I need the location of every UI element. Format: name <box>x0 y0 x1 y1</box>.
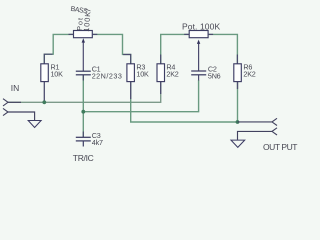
label C1 value <box>92 65 123 81</box>
node junction C1-C3 line <box>81 110 85 114</box>
wire bass pot left terminal to R1 <box>44 34 73 63</box>
ground left <box>28 121 41 128</box>
wire R6 pin stub <box>237 82 239 89</box>
connector OUT pin 1 <box>272 118 277 125</box>
resistor R4 <box>157 64 165 82</box>
wire C2 pin stub <box>198 75 200 81</box>
resistor R6 <box>234 64 242 82</box>
svg-text:OUT PUT: OUT PUT <box>263 142 297 152</box>
label R6 value <box>243 63 255 79</box>
wire IN ground return <box>8 112 35 120</box>
wire R1 bottom lead <box>43 82 45 103</box>
wire bass pot right pin stub <box>92 33 97 35</box>
svg-text:10K: 10K <box>51 70 64 79</box>
wire bass pot right terminal to R3 <box>92 34 130 63</box>
label R3 value <box>136 63 149 79</box>
svg-text:22N/233: 22N/233 <box>92 72 123 81</box>
wire main input line <box>8 82 161 103</box>
wire bass pot left pin stub <box>69 33 74 35</box>
wire R6 top pin stub <box>236 55 238 64</box>
svg-text:4k7: 4k7 <box>92 138 103 147</box>
svg-text:2K2: 2K2 <box>243 70 255 79</box>
potentiometer BASS wiper arrow <box>82 38 85 42</box>
wire C1 down to C3 <box>82 75 84 138</box>
svg-text:Pot. 100K: Pot. 100K <box>182 22 220 32</box>
capacitor C2 <box>191 71 206 75</box>
potentiometer BASS body <box>74 31 93 38</box>
resistor R3 <box>127 64 134 82</box>
node junction R1-input <box>42 100 46 104</box>
capacitor C3 <box>76 137 91 146</box>
potentiometer TREBLE body <box>189 31 208 38</box>
wire OUT ground return <box>238 131 273 140</box>
svg-text:IN: IN <box>11 83 19 93</box>
label R4 value <box>166 63 178 79</box>
wire R4 top pin stub <box>160 55 162 64</box>
wire R3 top pin stub <box>123 55 131 64</box>
wire R4 pin stub <box>160 82 162 94</box>
potentiometer TREBLE wiper arrow <box>197 40 200 44</box>
svg-text:100K/: 100K/ <box>82 8 93 32</box>
wire treble pot left terminal to R4 <box>161 34 190 63</box>
svg-text:TR/IC: TR/IC <box>73 153 94 163</box>
label C2 value <box>208 65 221 81</box>
wire C1 pin stub <box>82 75 84 81</box>
connector IN pin 1 <box>3 99 8 106</box>
node junction R6-output <box>236 120 240 124</box>
ground right <box>231 140 245 147</box>
wire R1 top pin stub <box>44 54 52 64</box>
wire treble pot right pin stub <box>208 33 213 35</box>
resistor R1 <box>41 64 49 82</box>
wire R3 bottom lead to output line <box>131 82 238 122</box>
svg-text:5N6: 5N6 <box>208 72 221 81</box>
wire treble pot right terminal to R6 <box>208 34 237 63</box>
wire C1 to C2 line <box>83 80 198 112</box>
wire C3 pin stub <box>82 132 84 138</box>
svg-text:2K2: 2K2 <box>166 70 178 79</box>
connector OUT pin 2 <box>272 128 277 135</box>
svg-text:10K: 10K <box>136 70 149 79</box>
wire R3 pin stub <box>130 82 132 99</box>
capacitor C1 <box>76 71 91 75</box>
wire IN pin 1 stub <box>8 101 21 103</box>
wire treble pot left pin stub <box>184 33 189 35</box>
connector IN pin 2 <box>3 108 8 115</box>
label C3 value <box>92 131 103 147</box>
wire output stub to OUT connector <box>238 121 273 123</box>
label R1 value <box>51 63 64 79</box>
wire R6 bottom lead <box>237 82 239 122</box>
